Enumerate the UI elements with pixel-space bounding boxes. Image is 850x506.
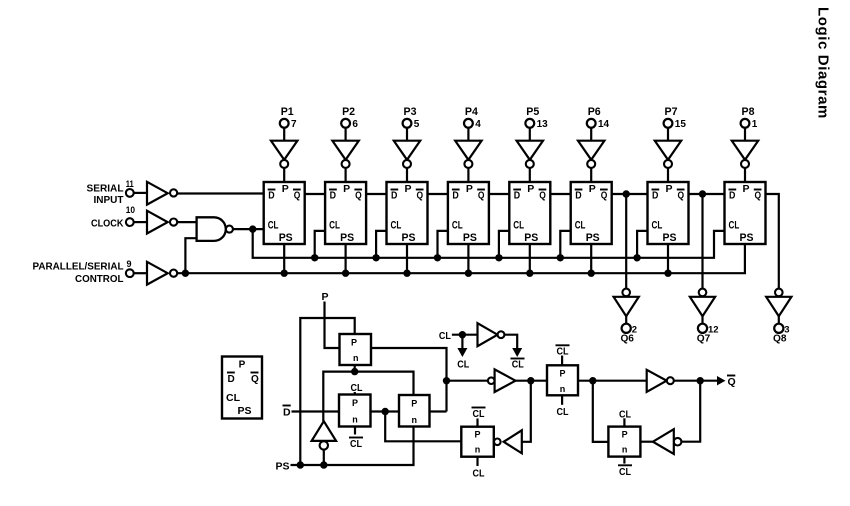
wire inverter PS to PS line: [323, 449, 325, 465]
svg-text:CL: CL: [473, 408, 485, 420]
flip-flop FF8: [725, 182, 766, 244]
svg-text:Q: Q: [355, 190, 362, 202]
wire TG1 n-gate line: [323, 372, 413, 422]
wire Q7 tap: [701, 194, 703, 288]
svg-text:P: P: [352, 398, 358, 408]
svg-text:P: P: [527, 183, 534, 195]
inverter I3 clock: [478, 323, 498, 346]
wire Q of FF5 to D of FF6: [550, 193, 570, 195]
buffer A1 serial input: [147, 182, 168, 205]
svg-text:Q: Q: [417, 190, 424, 202]
junction PS line: [320, 461, 327, 468]
svg-text:Q: Q: [728, 376, 736, 388]
bubble inverter P5: [526, 160, 534, 168]
svg-text:PS: PS: [524, 232, 538, 244]
svg-text:CL: CL: [452, 220, 463, 232]
wire P6 to inverter: [590, 128, 592, 141]
wire CL stub FF4: [438, 231, 448, 258]
svg-text:9: 9: [127, 259, 132, 269]
svg-text:P: P: [239, 360, 246, 371]
svg-text:Q: Q: [601, 190, 608, 202]
inverter I6 (left): [653, 429, 674, 454]
inverter P2: [332, 141, 358, 160]
svg-text:CL: CL: [513, 220, 524, 232]
svg-text:P4: P4: [465, 106, 479, 118]
svg-text:D: D: [391, 190, 398, 202]
svg-text:CL: CL: [557, 346, 569, 358]
svg-text:P: P: [742, 183, 749, 195]
flip-flop FF1: [264, 182, 305, 244]
svg-text:D: D: [514, 190, 521, 202]
bubble inverter P2: [342, 160, 350, 168]
inverter I2: [495, 369, 516, 392]
junction CL bus FF7: [633, 254, 640, 261]
junction PS bus FF5: [526, 270, 533, 277]
wire Q8: [778, 316, 780, 324]
flip-flop FF6: [571, 182, 612, 244]
wire Q of FF7 to D of FF8: [689, 193, 725, 195]
svg-text:CL: CL: [329, 220, 340, 232]
svg-text:P: P: [411, 399, 417, 409]
svg-text:P: P: [404, 183, 411, 195]
svg-text:n: n: [560, 384, 566, 394]
pin 11 terminal: [126, 189, 134, 197]
junction node after I2: [527, 377, 534, 384]
wire P8 to inverter: [744, 128, 746, 141]
pin P1 terminal: [280, 119, 289, 128]
svg-text:PS: PS: [463, 232, 477, 244]
pin 10 terminal: [126, 218, 134, 226]
junction stage node: [443, 377, 450, 384]
svg-text:P1: P1: [281, 106, 294, 118]
junction CL bus FF5: [495, 254, 502, 261]
junction CL bus FF2: [311, 254, 318, 261]
junction CL bus FF6: [557, 254, 564, 261]
bubble I5 output: [667, 377, 674, 384]
wire Q of FF6 to D of FF7: [612, 193, 648, 195]
wire G1 output to FF1 CL: [233, 228, 264, 230]
svg-text:n: n: [475, 445, 481, 455]
svg-text:n: n: [411, 415, 417, 425]
label TG4 CL gate: [476, 457, 478, 466]
svg-text:13: 13: [537, 119, 549, 130]
wire PS stub FF4: [467, 244, 469, 273]
wire inverter P3 to FF3: [406, 168, 408, 182]
svg-text:D: D: [228, 374, 235, 385]
bubble G1 output: [226, 226, 233, 233]
svg-text:4: 4: [475, 119, 481, 130]
junction TG1 bottom: [354, 365, 356, 372]
svg-text:CL: CL: [473, 468, 485, 480]
wire PS stub FF5: [529, 244, 531, 273]
wire CL to I3: [452, 334, 478, 336]
wire PS riser to NAND input: [185, 238, 196, 273]
svg-text:Q8: Q8: [773, 333, 787, 345]
svg-text:CL: CL: [457, 359, 469, 371]
svg-text:Q7: Q7: [697, 333, 711, 345]
wire TG3 output to node: [430, 410, 447, 412]
inverter P6: [578, 141, 604, 160]
inverter P8: [732, 141, 758, 160]
inverter I5 output: [647, 370, 667, 392]
transmission gate TG4: [461, 427, 494, 457]
svg-text:CONTROL: CONTROL: [75, 273, 124, 285]
wire: [134, 221, 147, 223]
wire I5 to Qbar: [674, 380, 717, 382]
label TG5 CLbar gate: [561, 356, 563, 366]
bubble inverter P1: [280, 160, 288, 168]
svg-text:P8: P8: [742, 106, 755, 118]
wire inverter P7 to FF7: [667, 168, 669, 182]
wire PS stub FF7: [667, 244, 669, 273]
pin Q6 terminal: [622, 324, 631, 333]
bubble inverter Q6 input: [622, 289, 630, 297]
junction CL bus FF3: [372, 254, 379, 261]
wire CL stub FF7: [637, 231, 647, 258]
svg-text:PS: PS: [663, 232, 677, 244]
svg-text:5: 5: [414, 119, 420, 130]
wire clock to NAND: [177, 221, 196, 223]
wire CL down arrow: [461, 335, 463, 349]
wire PS stub FF1: [283, 244, 285, 273]
svg-text:PS: PS: [740, 232, 754, 244]
wire Dbar to TG2: [292, 410, 340, 412]
wire Q of FF8: [766, 194, 779, 288]
svg-text:P: P: [343, 183, 350, 195]
svg-text:15: 15: [675, 119, 687, 130]
bubble I3 output: [498, 331, 505, 338]
wire TG5 to I5: [578, 380, 647, 382]
flip-flop FF3: [387, 182, 428, 244]
svg-text:INPUT: INPUT: [94, 194, 125, 206]
wire Q of FF4 to D of FF5: [489, 193, 509, 195]
svg-text:P: P: [351, 338, 357, 348]
junction PS bus FF3: [403, 270, 410, 277]
pin Q7 terminal: [698, 324, 707, 333]
wire inverter P5 to FF5: [529, 168, 531, 182]
wire inverter P6 to FF6: [590, 168, 592, 182]
svg-text:D: D: [283, 407, 291, 419]
transmission gate TG6: [608, 427, 640, 457]
bubble inverter I4 output: [494, 439, 501, 446]
pin P7 terminal: [664, 119, 673, 128]
transmission gate TG1: [340, 334, 372, 365]
pin P3 terminal: [403, 119, 412, 128]
bubble A2 output: [170, 219, 177, 226]
flip-flop FF7: [648, 182, 689, 244]
svg-text:P2: P2: [342, 106, 355, 118]
wire serial to FF1 D: [177, 192, 264, 194]
svg-text:n: n: [352, 415, 358, 425]
wire I4 input from node: [522, 381, 531, 442]
junction PS bus FF4: [465, 270, 472, 277]
svg-text:P3: P3: [404, 106, 417, 118]
pin 9 terminal: [126, 269, 134, 277]
inverter Q6: [614, 297, 639, 316]
svg-text:CL: CL: [619, 409, 631, 421]
wire TG1 output down to node: [371, 348, 447, 412]
wire: [134, 272, 147, 274]
junction CL bus FF4: [434, 254, 441, 261]
inverter I4 (left): [504, 430, 522, 453]
inverter P3: [394, 141, 420, 160]
junction PS bus FF7: [664, 270, 671, 277]
inverter Q7: [690, 297, 715, 316]
transmission gate TG2: [339, 395, 371, 427]
wire PS stub FF2: [345, 244, 347, 273]
wire CL stub FF5: [499, 231, 509, 258]
svg-text:PS: PS: [279, 232, 293, 244]
bubble inverter I2 input: [488, 377, 495, 384]
junction node CL: [249, 225, 256, 232]
wire Q7: [701, 316, 703, 324]
svg-text:D: D: [729, 190, 736, 202]
wire inverter P1 to FF1: [283, 168, 285, 182]
svg-text:P: P: [321, 291, 328, 303]
svg-text:Q6: Q6: [620, 333, 634, 345]
wire P7 to inverter: [667, 128, 669, 141]
wire: [134, 192, 147, 194]
junction PS bus FF2: [342, 270, 349, 277]
label TG5 CL gate: [561, 395, 563, 405]
wire P4 to inverter: [467, 128, 469, 141]
wire P input to TG1: [325, 302, 340, 349]
svg-text:D: D: [330, 190, 337, 202]
svg-text:CLOCK: CLOCK: [91, 218, 124, 230]
wire CL stub FF2: [315, 231, 325, 258]
svg-text:PS: PS: [402, 232, 416, 244]
svg-text:P: P: [622, 430, 628, 440]
svg-text:P: P: [559, 368, 565, 378]
wire inverter P8 to FF8: [744, 168, 746, 182]
wire PS stub FF3: [406, 244, 408, 273]
bubble A3 output: [170, 270, 177, 277]
svg-text:Q: Q: [251, 374, 259, 385]
label TG4 CLbar gate: [476, 419, 478, 427]
svg-text:6: 6: [352, 119, 358, 130]
svg-text:n: n: [622, 445, 628, 455]
wire P2 to inverter: [345, 128, 347, 141]
svg-text:CL: CL: [226, 392, 241, 404]
svg-text:P: P: [474, 430, 480, 440]
svg-text:PS: PS: [275, 461, 289, 473]
wire Q of FF2 to D of FF3: [366, 193, 386, 195]
svg-text:CL: CL: [619, 466, 631, 478]
pin P8 terminal: [741, 119, 750, 128]
svg-text:PS: PS: [586, 232, 600, 244]
svg-text:Q: Q: [478, 190, 485, 202]
wire P1 to inverter: [283, 128, 285, 141]
junction PS vertical: [297, 461, 304, 468]
junction CL: [459, 331, 466, 338]
bubble inverter PS input: [320, 441, 328, 449]
buffer A3 parallel/serial control: [147, 262, 168, 285]
svg-text:D: D: [652, 190, 659, 202]
bubble inverter Q7 input: [699, 289, 707, 297]
svg-text:D: D: [575, 190, 582, 202]
svg-text:PS: PS: [238, 405, 252, 417]
svg-text:Q: Q: [539, 190, 546, 202]
svg-text:CL: CL: [652, 220, 663, 232]
svg-text:P: P: [466, 183, 473, 195]
junction node PS at riser: [182, 270, 189, 277]
svg-text:PARALLEL/SERIAL: PARALLEL/SERIAL: [33, 261, 125, 273]
svg-text:Logic Diagram: Logic Diagram: [815, 7, 832, 119]
svg-text:Q: Q: [294, 190, 301, 202]
svg-text:n: n: [353, 353, 359, 363]
junction Q6 tap: [623, 190, 630, 197]
svg-text:CL: CL: [391, 220, 402, 232]
svg-text:CL: CL: [512, 359, 524, 371]
svg-text:CL: CL: [557, 406, 569, 418]
flip-flop FF5: [509, 182, 550, 244]
wire P3 to inverter: [406, 128, 408, 141]
junction Qbar feedback: [697, 377, 704, 384]
wire I3 to CLbar arrow: [504, 335, 517, 349]
inverter Q8: [766, 297, 791, 316]
nand gate G1: [197, 217, 226, 241]
pin Q8 terminal: [774, 324, 783, 333]
bubble inverter I6 input: [674, 438, 682, 446]
svg-text:D: D: [268, 190, 275, 202]
flip-flop FF4: [448, 182, 489, 244]
wire CL stub FF3: [376, 231, 386, 258]
bubble inverter P6: [587, 160, 595, 168]
inverter P5: [517, 141, 543, 160]
wire Qbar feedback down: [681, 381, 700, 442]
bubble A1 output: [170, 189, 177, 196]
inverter P1: [271, 141, 297, 160]
wire PS line to TG3 bottom: [291, 427, 414, 466]
svg-text:PS: PS: [340, 232, 354, 244]
wire P5 to inverter: [529, 128, 531, 141]
wire I2 to TG5: [516, 380, 548, 382]
bubble inverter P4: [464, 160, 472, 168]
wire TG6 output to latch node: [593, 381, 609, 442]
junction latch node: [382, 408, 389, 415]
svg-text:10: 10: [126, 205, 135, 215]
svg-text:CL: CL: [350, 438, 362, 450]
svg-text:P5: P5: [526, 106, 539, 118]
svg-text:7: 7: [291, 119, 297, 130]
junction PS bus FF1: [281, 270, 288, 277]
inverter P7: [655, 141, 681, 160]
wire inverter P2 to FF2: [345, 168, 347, 182]
pin P4 terminal: [464, 119, 473, 128]
wire I6 to TG6: [640, 441, 653, 443]
flip-flop FF2: [325, 182, 366, 244]
wire TG2 to TG3: [371, 410, 400, 412]
inverter PS (up): [312, 421, 337, 441]
transmission gate TG5: [547, 365, 578, 395]
svg-text:P: P: [282, 183, 289, 195]
wire PS to TG1 top gate: [300, 318, 354, 465]
svg-text:CL: CL: [575, 220, 586, 232]
inverter P4: [455, 141, 481, 160]
svg-text:CL: CL: [268, 220, 279, 232]
wire Q6: [625, 316, 627, 324]
wire CL bus: [253, 229, 725, 258]
svg-text:P7: P7: [665, 106, 678, 118]
wire Q of FF1 to D of FF2: [305, 193, 325, 195]
label TG6 CL gate: [623, 418, 625, 426]
pin P2 terminal: [341, 119, 350, 128]
wire Q6 tap: [625, 194, 627, 288]
junction PS bus FF6: [588, 270, 595, 277]
arrow Qbar: [717, 376, 726, 385]
buffer A2 clock: [147, 211, 168, 234]
wire Q of FF3 to D of FF4: [428, 193, 448, 195]
wire latch feedback to TG4: [385, 412, 461, 442]
label TG2 CLbar gate: [354, 427, 356, 435]
wire CL stub FF6: [560, 231, 570, 258]
wire PS stub FF6: [590, 244, 592, 273]
junction Q7 tap: [699, 190, 706, 197]
svg-text:CL: CL: [729, 220, 740, 232]
junction output latch node: [589, 377, 596, 384]
wire node to I2: [447, 380, 488, 382]
transmission gate TG3: [399, 395, 430, 427]
bubble inverter P8: [741, 160, 749, 168]
svg-text:D: D: [452, 190, 459, 202]
wire inverter P4 to FF4: [467, 168, 469, 182]
svg-text:14: 14: [598, 119, 610, 130]
wire PS bus: [177, 244, 745, 273]
svg-text:CL: CL: [439, 330, 451, 342]
pin P6 terminal: [587, 119, 596, 128]
bubble inverter Q8 input: [775, 289, 783, 297]
svg-text:SERIAL: SERIAL: [87, 182, 125, 194]
label TG6 CLbar gate: [623, 457, 625, 464]
svg-text:Q: Q: [755, 190, 762, 202]
svg-text:1: 1: [752, 119, 758, 130]
svg-text:P6: P6: [588, 106, 601, 118]
svg-text:P: P: [589, 183, 596, 195]
bubble inverter P7: [664, 160, 672, 168]
legend flip-flop symbol: [222, 357, 262, 419]
svg-text:P: P: [665, 183, 672, 195]
svg-text:Q: Q: [678, 190, 685, 202]
svg-text:11: 11: [126, 179, 134, 189]
svg-text:CL: CL: [351, 382, 363, 394]
bubble inverter P3: [403, 160, 411, 168]
pin P5 terminal: [525, 119, 534, 128]
